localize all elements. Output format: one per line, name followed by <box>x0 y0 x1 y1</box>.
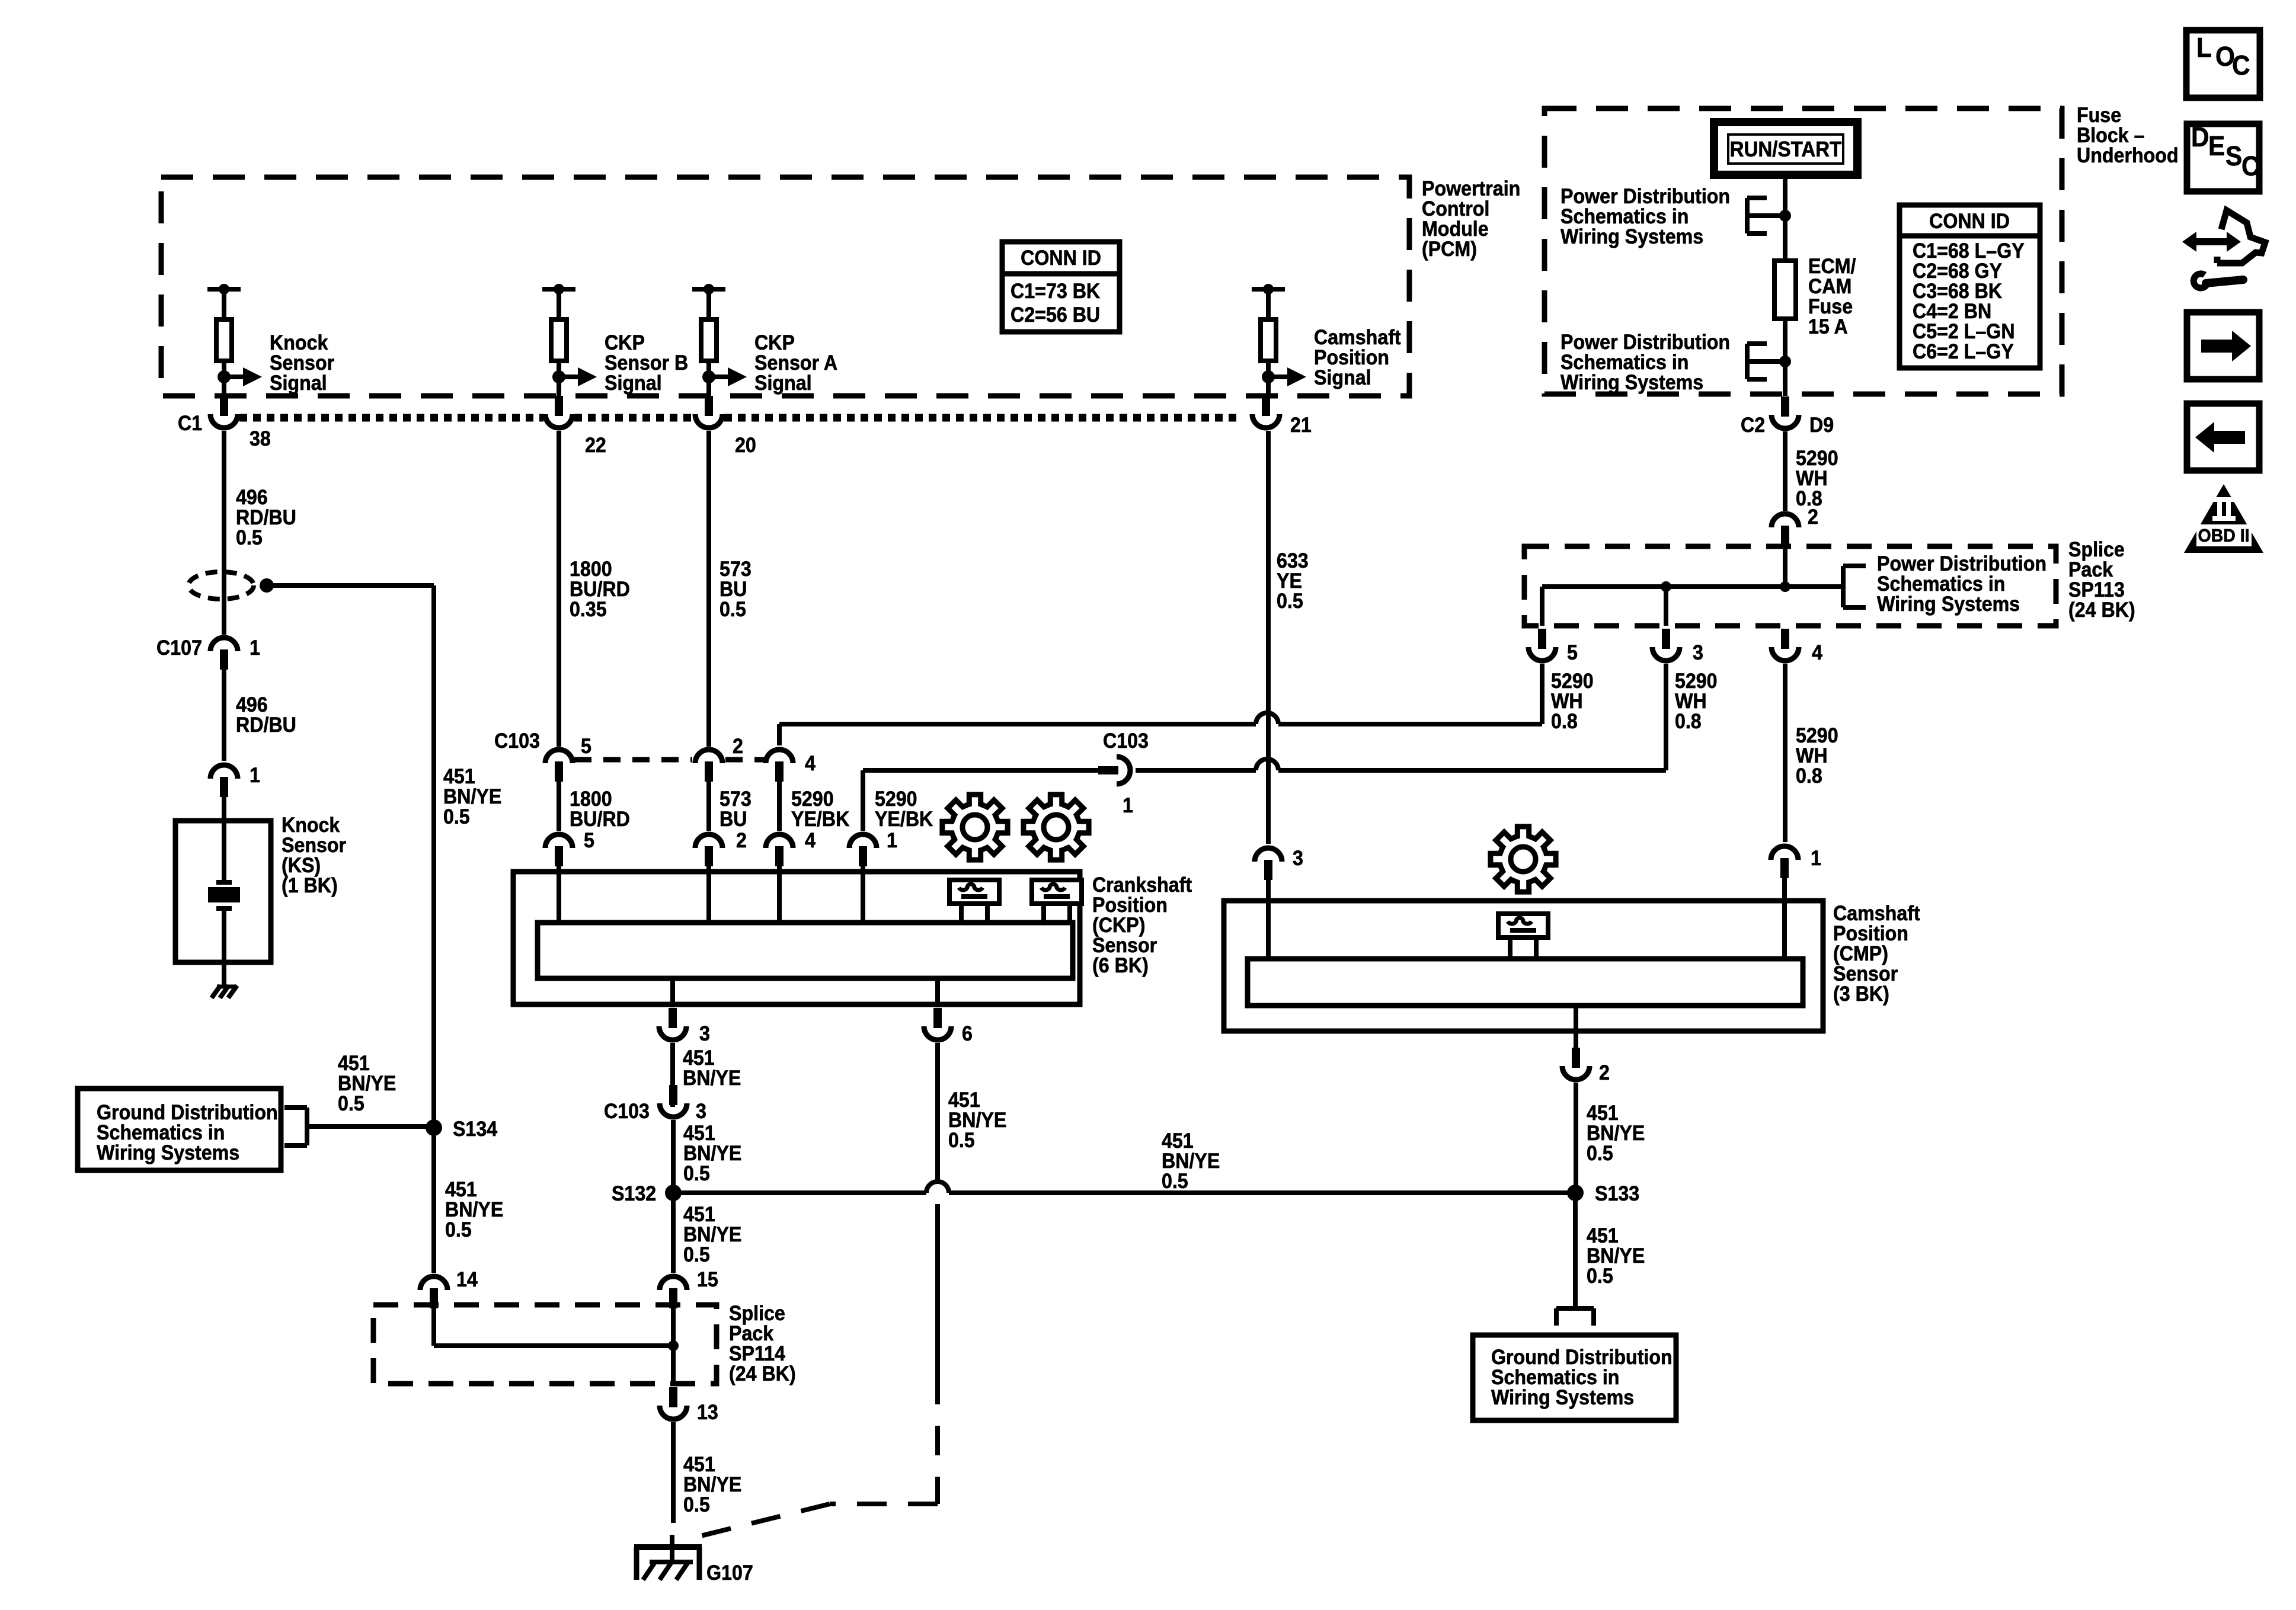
fuse ECM/CAM <box>1774 261 1796 319</box>
bracket power dist 2 <box>1745 344 1750 379</box>
connector SP114 pin 15 <box>660 1276 687 1290</box>
svg-text:3: 3 <box>696 1100 706 1124</box>
wire S132 to conn 15 <box>671 1193 676 1273</box>
CKP internal wire pin5 <box>557 872 561 923</box>
splice junction dot <box>260 578 274 593</box>
wire 573 BU upper <box>706 431 711 747</box>
junction dot 1 <box>1779 210 1791 222</box>
svg-text:L: L <box>2196 33 2212 63</box>
wire 5290 YE/BK pin4 <box>777 780 782 831</box>
svg-text:1: 1 <box>250 764 260 788</box>
wire bracket2 <box>1747 359 1785 364</box>
svg-text:14: 14 <box>456 1269 478 1292</box>
connector SP114 pin 13 <box>669 1387 677 1407</box>
wire 5290 WH upper <box>1783 431 1787 511</box>
wire KS to ground <box>222 908 226 987</box>
svg-text:C2: C2 <box>1741 414 1765 437</box>
CKP internal wire pin2 <box>706 872 711 923</box>
svg-text:C103: C103 <box>494 730 540 753</box>
svg-text:C107: C107 <box>156 637 202 660</box>
svg-text:573BU: 573BU <box>720 788 752 831</box>
svg-text:5: 5 <box>581 735 591 758</box>
knock sensor piezo element <box>216 880 232 885</box>
wire SP113-5 to C103-4 <box>1540 664 1544 724</box>
Splice Pack SP114 dashed box <box>373 1305 717 1384</box>
connector SP113 pin 4 <box>1781 629 1789 649</box>
bracket SP113 <box>1841 566 1846 607</box>
wire S133 down <box>1573 1193 1578 1308</box>
svg-text:C1: C1 <box>178 412 202 436</box>
svg-text:D: D <box>2191 122 2209 152</box>
ground at knock sensor <box>217 985 236 989</box>
svg-text:C: C <box>2232 50 2250 81</box>
svg-text:22: 22 <box>585 434 606 457</box>
svg-text:1: 1 <box>1811 847 1821 870</box>
wire 496 RD/BU lower <box>222 670 226 761</box>
wire 1800 BU/RD lower <box>557 780 561 831</box>
fuse block wire upper <box>1783 175 1787 261</box>
svg-text:CONN ID: CONN ID <box>1021 247 1101 270</box>
svg-text:KnockSensor(KS)(1 BK): KnockSensor(KS)(1 BK) <box>282 814 346 898</box>
CMP output wire <box>1574 1006 1578 1031</box>
wire SP113-3 to C103-1 (right part) <box>1664 664 1668 770</box>
sidebar right-arrow box <box>2187 312 2259 379</box>
ground distribution reference box (right) <box>1473 1335 1676 1420</box>
connector C103 dashed line <box>574 757 692 763</box>
CKP inductive element A <box>949 880 999 904</box>
resistor knock-sensor-signal (PCM) <box>207 287 241 292</box>
bracket to right ground box <box>1556 1306 1594 1311</box>
connector CKP pin 1 <box>849 834 877 848</box>
SP114 internal wire down <box>671 1307 676 1386</box>
splice S133 <box>1567 1185 1584 1201</box>
connector C1 pin 21 <box>1262 396 1270 416</box>
wire 1800 BU/RD upper <box>557 431 561 747</box>
reluctor gear icon A <box>942 795 1008 860</box>
svg-text:4: 4 <box>805 753 816 776</box>
reluctor gear icon B <box>1024 795 1089 860</box>
reluctor gear icon CMP <box>1491 827 1556 892</box>
CKP internal wire pin1 <box>861 872 865 923</box>
svg-text:13: 13 <box>697 1401 718 1425</box>
wire 5290 YE/BK pin1 <box>861 783 865 831</box>
resistor CKP-sensor-B-signal (PCM) <box>542 287 575 292</box>
wire 5290 WH to CMP pin1 <box>1783 664 1787 842</box>
svg-text:KnockSensorSignal: KnockSensorSignal <box>270 332 334 395</box>
sidebar DESC box <box>2187 124 2259 191</box>
svg-text:15: 15 <box>697 1269 718 1292</box>
connector CKP pin 6 (below box) <box>933 1008 942 1028</box>
CMP inner connector strip <box>1248 959 1803 1006</box>
Fuse Block - Underhood dashed box <box>1544 108 2062 394</box>
crankshaft position (CKP) sensor outer box <box>513 872 1080 1004</box>
CKP output wire pin6 <box>935 978 940 1007</box>
svg-text:1: 1 <box>250 637 260 660</box>
wire 633 YE <box>1266 431 1271 844</box>
svg-text:5: 5 <box>1567 642 1578 665</box>
connector CKP pin 2 <box>695 834 722 848</box>
svg-text:4: 4 <box>805 830 816 853</box>
sidebar service icon <box>2182 232 2241 252</box>
svg-text:OBD II: OBD II <box>2198 526 2249 546</box>
svg-text:C1=73 BKC2=56 BU: C1=73 BKC2=56 BU <box>1011 280 1100 327</box>
ground distribution reference box (left) <box>78 1089 281 1170</box>
svg-text:S134: S134 <box>453 1118 497 1141</box>
connector SP113 pin 3 <box>1662 629 1670 649</box>
connector C1 pin 20 <box>705 396 713 416</box>
connector C103 pin 4 <box>766 750 793 763</box>
wire S134 to conn 14 <box>431 1128 436 1273</box>
wire 6 451 BN/YE <box>935 1043 940 1182</box>
CKP inner connector strip <box>538 923 1073 978</box>
fuse CONN ID table box <box>1900 205 2040 368</box>
svg-text:2: 2 <box>1808 506 1818 529</box>
connector C103 pin 5 <box>545 750 573 763</box>
PCM CONN ID table box <box>1002 242 1120 332</box>
svg-text:C103: C103 <box>1103 730 1149 753</box>
camshaft position (CMP) sensor outer box <box>1224 901 1823 1031</box>
wire C103-1 to drop <box>863 768 1098 773</box>
fuse block wire lower <box>1783 319 1787 396</box>
CMP inductive element <box>1498 914 1548 937</box>
splice S132 <box>665 1185 682 1201</box>
connector C107 pin 1 <box>210 638 238 651</box>
connector CKP pin 3 (below box) <box>669 1008 677 1028</box>
svg-text:4: 4 <box>1812 642 1822 665</box>
connector C2 pin D9 <box>1781 396 1789 417</box>
bracket power dist 1 <box>1745 198 1750 233</box>
wire bracket to S134 <box>307 1124 434 1129</box>
knock sensor (KS) box <box>175 821 271 962</box>
wire S132 to S133 <box>673 1190 926 1195</box>
dashed wire 13 to ground <box>671 1493 676 1541</box>
svg-text:D9: D9 <box>1809 414 1834 437</box>
sidebar OBD II triangle <box>2184 484 2263 553</box>
splice S134 <box>426 1119 442 1136</box>
wire 451 BN/YE (pin3 to C103) <box>670 1043 675 1107</box>
wire bracket1 <box>1747 213 1785 218</box>
svg-text:C103: C103 <box>604 1100 650 1124</box>
svg-text:21: 21 <box>1290 414 1312 437</box>
svg-text:38: 38 <box>250 428 271 451</box>
sidebar right-arrow <box>2201 340 2232 353</box>
wire 13 down <box>671 1422 676 1493</box>
connector CKP pin 5 <box>545 834 573 848</box>
connector CMP pin 3 <box>1255 848 1282 862</box>
dashed wire 6 to G107 <box>935 1375 940 1504</box>
svg-text:C: C <box>2241 151 2260 181</box>
sidebar left-arrow box <box>2187 404 2259 470</box>
wire splice to 451 column <box>267 583 434 588</box>
svg-text:S133: S133 <box>1595 1183 1639 1206</box>
junction dot 2 <box>1779 356 1791 367</box>
wire 451 BN/YE to S132 <box>671 1120 676 1193</box>
svg-text:3: 3 <box>699 1023 710 1046</box>
connector CKP pin 4 <box>766 834 793 848</box>
svg-text:6: 6 <box>962 1023 973 1046</box>
sidebar LOC box <box>2186 30 2260 98</box>
CKP inductive element B <box>1032 880 1082 904</box>
resistor camshaft-position-signal (PCM) <box>1252 287 1285 292</box>
connector CMP pin 2 (below box) <box>1572 1048 1580 1068</box>
svg-text:2: 2 <box>733 735 743 758</box>
SP114 junction dot <box>668 1340 679 1351</box>
connector C1 dotted harness line <box>239 414 543 422</box>
svg-text:RUN/START: RUN/START <box>1730 138 1842 162</box>
Splice Pack SP113 dashed box <box>1524 546 2056 626</box>
ground G107 <box>634 1544 702 1550</box>
wire 573 BU lower <box>706 780 711 831</box>
resistor CKP-sensor-A-signal (PCM) <box>692 287 725 292</box>
PCM module dashed box <box>161 177 1409 396</box>
wire 496 RD/BU upper <box>222 431 226 635</box>
bracket to left ground box <box>305 1108 309 1145</box>
svg-text:5: 5 <box>584 830 594 853</box>
SP113 dot B <box>1780 581 1790 592</box>
CKP output wire pin3 <box>670 978 675 1007</box>
CMP internal wire pin1 <box>1782 901 1787 959</box>
connector C1 pin 38 <box>222 377 226 396</box>
svg-text:2: 2 <box>1599 1062 1610 1085</box>
SP113 internal bus <box>1542 584 1843 589</box>
wire 451 CMP to S133 <box>1574 1083 1578 1193</box>
connector C103 pin 1 (inline) <box>1098 766 1118 774</box>
connector KS pin 1 <box>210 765 238 779</box>
CMP internal wire pin3 <box>1266 901 1271 959</box>
connector CMP pin 1 <box>1771 846 1798 860</box>
svg-text:3: 3 <box>1693 642 1703 665</box>
connector C1 pin 22 <box>555 396 563 416</box>
connector SP113 pin 5 <box>1538 629 1546 649</box>
SP114 internal wire from 14 <box>431 1307 436 1346</box>
connector SP114 pin 14 <box>420 1276 447 1290</box>
in-line splice dashed ellipse <box>188 572 254 599</box>
connector C103 pin 3 (451) <box>669 1085 677 1105</box>
svg-text:2: 2 <box>736 830 747 853</box>
svg-text:20: 20 <box>735 434 756 457</box>
svg-text:1: 1 <box>1123 795 1133 818</box>
sidebar left-arrow <box>2214 431 2245 444</box>
svg-text:S: S <box>2225 141 2242 171</box>
SP113 dot A <box>1661 581 1671 592</box>
svg-text:E: E <box>2208 131 2225 161</box>
svg-text:S132: S132 <box>612 1183 656 1206</box>
svg-text:CONN ID: CONN ID <box>1929 210 2010 233</box>
wire into knock sensor <box>222 794 226 881</box>
svg-text:1: 1 <box>887 830 897 853</box>
RUN/START box <box>1714 122 1857 175</box>
svg-text:3: 3 <box>1293 847 1303 870</box>
connector SP113 pin 2 <box>1771 514 1799 527</box>
svg-text:G107: G107 <box>706 1562 753 1585</box>
connector C103 pin 2 <box>695 750 722 763</box>
CKP internal wire pin4 <box>777 872 782 923</box>
